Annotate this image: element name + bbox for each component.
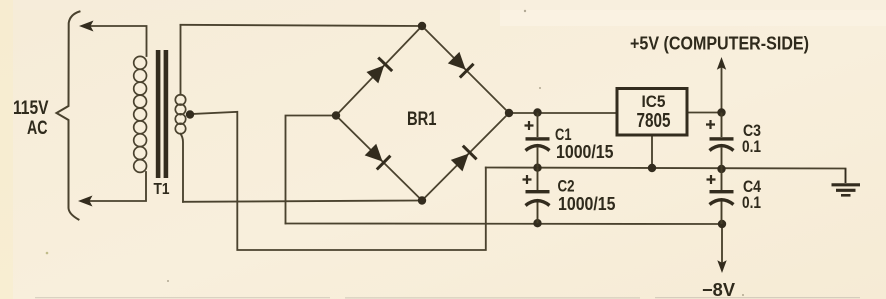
ground symbol <box>832 169 861 196</box>
scan edge artifacts bottom <box>35 297 860 299</box>
junction dot bridge left vertex <box>332 111 340 119</box>
wire secondary bottom to bridge bottom <box>183 201 422 202</box>
svg-text:115V: 115V <box>13 98 49 119</box>
plus rail wire bridge to IC5 <box>509 112 617 114</box>
bridge rectifier BR1 diamond edges <box>336 26 509 201</box>
scan specks <box>46 10 744 296</box>
svg-text:+5V (COMPUTER-SIDE): +5V (COMPUTER-SIDE) <box>630 34 809 54</box>
wire center tap to ground run <box>191 112 486 250</box>
svg-text:1000/15: 1000/15 <box>558 193 616 214</box>
diode D4 bottom-right of BR1 <box>450 145 478 173</box>
top rail wire to bridge top <box>181 25 423 26</box>
ground rail wire <box>486 168 846 169</box>
+5V arrowhead <box>717 57 726 70</box>
junction dot transformer center tap <box>186 110 194 118</box>
diode D1 top-left of BR1 <box>365 56 393 84</box>
-8V arrowhead <box>717 260 726 273</box>
svg-text:0.1: 0.1 <box>742 137 761 156</box>
transformer T1 secondary winding <box>175 95 185 134</box>
transformer core bars <box>156 50 161 178</box>
svg-text:T1: T1 <box>154 181 170 198</box>
transformer T1 primary winding <box>134 56 147 172</box>
svg-text:−8V: −8V <box>702 280 735 299</box>
junction dot C1 top <box>533 108 541 116</box>
junction dot C4 bottom <box>718 220 726 228</box>
voltage regulator IC5 box <box>617 89 687 136</box>
svg-text:BR1: BR1 <box>407 109 437 130</box>
wire secondary top to top rail <box>180 25 182 95</box>
capacitor C2 <box>523 168 550 224</box>
svg-text:7805: 7805 <box>637 109 671 132</box>
wire primary bottom to AC arrow <box>90 172 147 201</box>
capacitor C3 <box>706 113 734 170</box>
junction dot +5V / C3 <box>717 108 725 116</box>
wire IC5 output to +5V node <box>687 112 722 114</box>
junction dot C3/C4 ground <box>717 165 725 173</box>
svg-text:0.1: 0.1 <box>742 193 761 212</box>
junction dot IC5 ground <box>648 164 656 172</box>
diode D2 top-right of BR1 <box>447 51 475 79</box>
svg-text:AC: AC <box>27 118 48 139</box>
AC arrowhead bottom <box>78 196 93 207</box>
diode D3 bottom-left of BR1 <box>364 143 392 171</box>
wire secondary bottom <box>181 134 184 202</box>
junction dot bridge right vertex <box>505 109 513 117</box>
AC arrowhead top <box>79 21 94 32</box>
capacitor C4 <box>707 169 734 224</box>
wire primary top to AC arrow <box>90 26 147 56</box>
wire IC5 ground pin <box>651 135 653 168</box>
-8V rail wire <box>286 223 723 226</box>
svg-text:1000/15: 1000/15 <box>556 141 614 162</box>
junction dot C2 bottom <box>533 219 541 227</box>
-8V drop wire <box>721 224 723 262</box>
capacitor C1 <box>525 113 550 168</box>
+5V riser wire <box>721 66 723 113</box>
junction dot C1/C2 ground <box>533 164 541 172</box>
wire bridge left vertex to -8V rail <box>286 116 337 224</box>
junction dot bridge top vertex <box>418 22 426 30</box>
brace for 115V AC source <box>57 12 80 220</box>
junction dot bridge bottom vertex <box>418 196 426 204</box>
